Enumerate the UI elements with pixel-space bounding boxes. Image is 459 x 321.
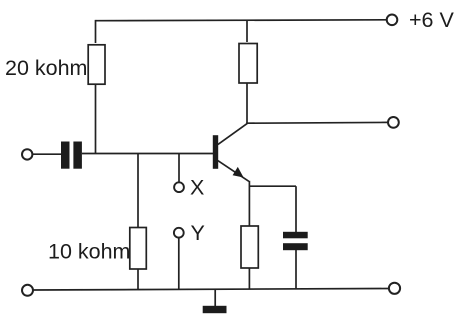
resistor R4 — [241, 226, 258, 268]
node Y terminal — [174, 228, 184, 238]
resistor R1 — [88, 45, 105, 84]
resistor R2 — [239, 44, 257, 84]
svg-text:X: X — [190, 175, 204, 199]
wire input to C1 — [32, 153, 61, 155]
top supply rail wire — [96, 19, 387, 22]
wire rail to R2 — [246, 20, 248, 42]
wire emitter node to C2 — [249, 185, 296, 187]
wire R1 top — [95, 20, 97, 43]
node X terminal — [174, 182, 184, 192]
wire R4 to bottom rail — [248, 268, 250, 289]
bottom right terminal — [389, 283, 400, 294]
capacitor C1 — [61, 142, 82, 169]
wire C2 bottom — [295, 250, 297, 289]
wire emitter node down — [248, 181, 250, 226]
svg-text:20 kohm: 20 kohm — [5, 56, 87, 80]
bottom left terminal — [22, 285, 33, 296]
ground — [203, 289, 227, 313]
wire C2 top — [295, 186, 297, 232]
resistor R3 — [130, 228, 147, 270]
wire collector node to output — [246, 121, 388, 124]
wire R3 to bottom rail — [137, 269, 139, 289]
+6V terminal — [387, 14, 398, 25]
wire node Y to bottom rail — [178, 237, 180, 289]
capacitor C2 — [283, 232, 308, 250]
input terminal — [22, 149, 32, 159]
wire R1 bottom — [95, 84, 97, 154]
svg-text:10 kohm: 10 kohm — [48, 240, 130, 264]
svg-text:Y: Y — [191, 221, 205, 245]
svg-text:+6 V: +6 V — [409, 8, 454, 32]
transistor Q1 — [213, 123, 249, 181]
wire base junction to R3 — [137, 154, 139, 228]
wire base to node X — [178, 154, 180, 183]
wire R2 to collector node — [246, 83, 248, 123]
wire C1 to base — [82, 153, 213, 155]
output terminal — [388, 117, 399, 128]
bottom rail wire — [33, 289, 389, 291]
